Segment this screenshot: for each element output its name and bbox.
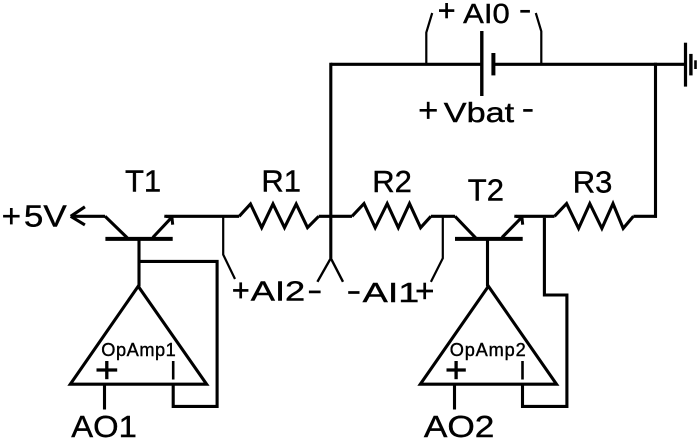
svg-text:R3: R3 <box>573 164 613 199</box>
svg-text:AI0: AI0 <box>463 0 510 29</box>
svg-text:AO1: AO1 <box>71 409 137 439</box>
svg-text:R2: R2 <box>372 164 412 199</box>
svg-text:T2: T2 <box>468 173 504 208</box>
svg-text:OpAmp1: OpAmp1 <box>101 340 176 360</box>
svg-text:5V: 5V <box>24 198 67 233</box>
svg-text:T1: T1 <box>125 164 161 199</box>
svg-text:Vbat: Vbat <box>444 97 515 128</box>
svg-text:AI2: AI2 <box>251 276 305 307</box>
svg-text:OpAmp2: OpAmp2 <box>450 340 526 360</box>
svg-text:AI1: AI1 <box>363 277 420 308</box>
svg-text:AO2: AO2 <box>424 409 495 439</box>
svg-text:R1: R1 <box>261 164 301 199</box>
